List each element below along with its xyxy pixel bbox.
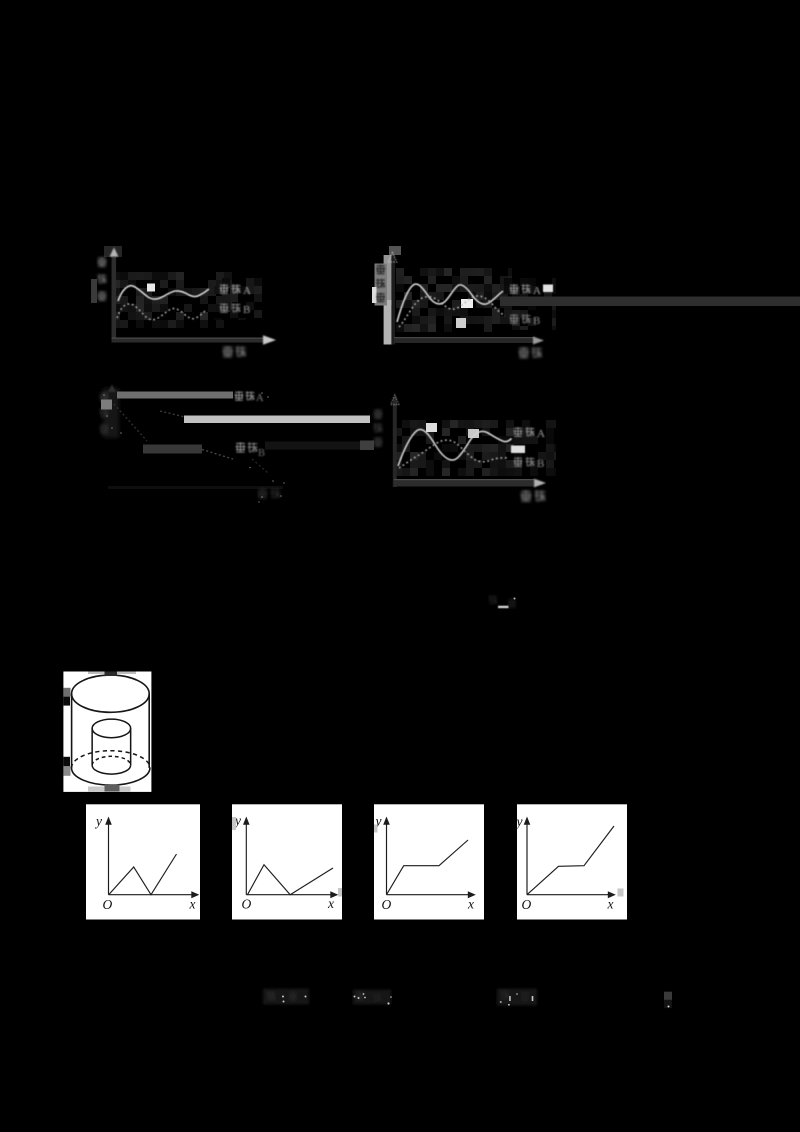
svg-text:x: x (467, 897, 474, 912)
svg-text:O: O (522, 897, 532, 912)
svg-text:A: A (243, 285, 251, 297)
svg-text:O: O (242, 897, 252, 912)
svg-text:x: x (189, 897, 196, 912)
svg-text:A: A (537, 428, 545, 440)
svg-text:B: B (533, 315, 540, 327)
svg-text:A: A (256, 393, 264, 404)
svg-text:y: y (94, 814, 102, 829)
svg-text:B: B (537, 458, 544, 470)
svg-text:B: B (258, 448, 265, 459)
svg-text:B: B (243, 304, 250, 316)
svg-text:x: x (607, 897, 614, 912)
svg-text:y: y (515, 814, 523, 829)
svg-text:A: A (533, 285, 541, 297)
svg-text:O: O (103, 897, 113, 912)
svg-text:O: O (382, 897, 392, 912)
svg-text:x: x (327, 896, 334, 911)
